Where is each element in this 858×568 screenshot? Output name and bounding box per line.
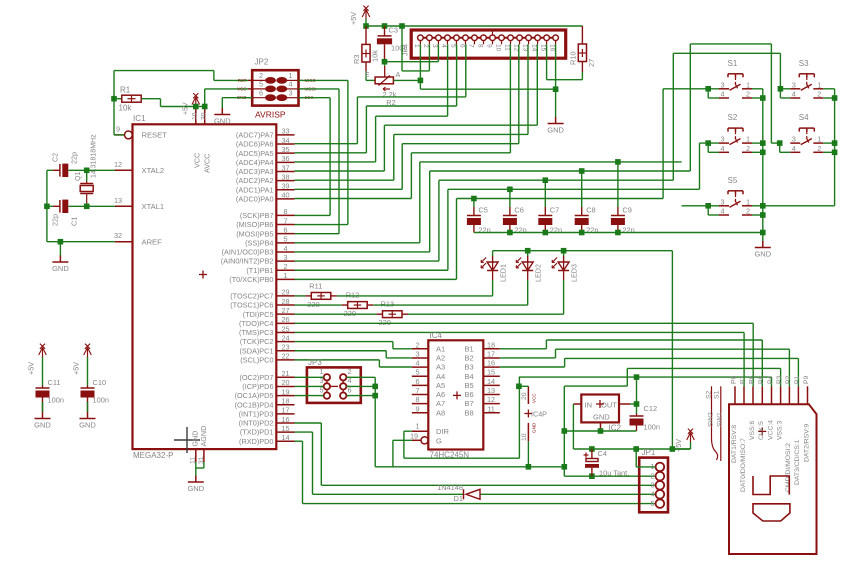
wire RESET to JP2 pin2: [113, 71, 115, 99]
node S5 right a: [760, 203, 766, 209]
svg-text:38: 38: [281, 172, 289, 181]
svg-text:2: 2: [746, 207, 750, 216]
svg-text:4: 4: [440, 44, 447, 48]
svg-text:A3: A3: [436, 363, 445, 372]
svg-text:9: 9: [485, 44, 492, 48]
node left rail XTAL1: [44, 204, 50, 210]
svg-text:C10: C10: [93, 378, 107, 387]
capacitor C6 22n: [509, 189, 511, 207]
svg-text:LED2: LED2: [534, 264, 543, 282]
svg-text:3: 3: [720, 80, 724, 89]
capacitor C8 22n: [581, 171, 583, 207]
svg-text:+5V: +5V: [183, 102, 190, 115]
connector SD card socket: [729, 404, 817, 554]
JP4 pin 11 pad: [508, 35, 514, 41]
svg-text:37: 37: [281, 163, 289, 172]
svg-text:14: 14: [530, 44, 537, 52]
IC4 pin 14 B5: [483, 384, 500, 386]
svg-text:DIR: DIR: [436, 427, 450, 436]
JP1 pin 4 pad: [656, 490, 665, 499]
svg-text:A: A: [396, 70, 401, 79]
+5V JP1: [690, 433, 692, 442]
svg-text:21: 21: [281, 369, 289, 378]
JP4 pin 3 pad: [436, 35, 442, 41]
svg-text:VCC:4: VCC:4: [767, 420, 774, 440]
svg-text:A4: A4: [436, 372, 445, 381]
capacitor C1 22p: [47, 205, 53, 207]
IC4 pin 16 B3: [483, 366, 500, 368]
pin 1 (T0/XCK)PB0: [276, 278, 294, 280]
svg-text:1: 1: [746, 135, 750, 144]
svg-text:IC2: IC2: [609, 424, 622, 433]
svg-text:14.31818MHz: 14.31818MHz: [91, 134, 98, 178]
node C8 top: [579, 168, 585, 174]
IC4 pin 15 B4: [483, 375, 500, 377]
wire PD1 to JP1 pin4 (via D1): [295, 431, 313, 433]
wire LCD p16 down: [555, 44, 557, 89]
pin 2 (T1)PB1: [276, 269, 294, 271]
svg-text:(ADC0)PA0: (ADC0)PA0: [236, 194, 274, 203]
svg-text:B1: B1: [465, 344, 474, 353]
JP3 pads row 1: [324, 374, 330, 380]
svg-text:CLK:5: CLK:5: [758, 421, 765, 440]
wire AREF gnd drop: [59, 242, 61, 256]
wire S2 right: [752, 142, 763, 144]
svg-text:DAT1/RSV:8: DAT1/RSV:8: [731, 425, 738, 463]
svg-text:100n: 100n: [644, 423, 660, 432]
ground JP2: [221, 108, 223, 115]
trimmer R2 2.2k: [365, 71, 367, 80]
wire VCC-AVCC link: [196, 106, 205, 108]
wire JP1 pin1 +5V: [635, 449, 637, 467]
IC4 pin 13 B6: [483, 394, 500, 396]
svg-text:9: 9: [116, 125, 120, 134]
wire PC2 to A1: [295, 341, 393, 343]
wire B2 to card P2 CMD: [500, 357, 556, 359]
svg-text:32: 32: [114, 231, 122, 240]
wire PB2 stub run: [295, 260, 439, 262]
svg-text:28: 28: [281, 297, 289, 306]
svg-text:(ADC7)PA7: (ADC7)PA7: [236, 131, 274, 140]
JP1 pad links: [659, 470, 661, 473]
wire button bus row 3: [439, 179, 673, 181]
resistor R11 220: [295, 295, 306, 297]
wire PD5 to JP3 pin5: [295, 395, 324, 397]
svg-text:14: 14: [281, 433, 289, 442]
JP4 pin 4 pad: [445, 35, 451, 41]
svg-text:(TMS)PC3: (TMS)PC3: [239, 328, 273, 337]
connector JP4 LCD 16-pin: [411, 30, 566, 58]
wire LED bus riser: [671, 251, 673, 449]
wire S3 right: [823, 88, 834, 90]
node C7 top: [543, 177, 549, 183]
pin 26 (TDO)PC4: [276, 322, 294, 324]
svg-text:S5: S5: [728, 176, 738, 185]
svg-text:IC4P: IC4P: [531, 410, 547, 419]
pin 21 (OC2)PD7: [276, 376, 294, 378]
svg-text:3: 3: [288, 89, 292, 98]
svg-text:10: 10: [521, 433, 528, 441]
svg-text:15: 15: [539, 44, 546, 52]
wire gnd to card P3: [564, 385, 627, 387]
IC4 pin 19 G (bubble): [412, 439, 421, 441]
wire LED2 cathode to R12: [373, 304, 528, 306]
svg-text:18: 18: [281, 397, 289, 406]
pin 12 XTAL2: [115, 169, 133, 171]
node rail R3: [363, 23, 369, 29]
svg-text:JP4: JP4: [403, 44, 410, 56]
resistor R13 220: [295, 313, 377, 315]
svg-text:27: 27: [281, 306, 289, 315]
wire DIR net: [404, 430, 412, 432]
svg-text:3: 3: [720, 135, 724, 144]
wire IC2 IN from +5V line: [573, 403, 581, 405]
svg-text:10: 10: [494, 44, 501, 52]
svg-text:2: 2: [817, 90, 821, 99]
svg-text:B4: B4: [465, 372, 474, 381]
node AREF gnd tap: [58, 239, 64, 245]
svg-text:4: 4: [720, 207, 724, 216]
JP4 pin 8 pad: [481, 35, 487, 41]
pin 19 (OC1A)PD5: [276, 395, 294, 397]
wire LCD p1 down: [419, 44, 421, 80]
svg-text:(ADC4)PA4: (ADC4)PA4: [236, 158, 274, 167]
svg-text:SW1: SW1: [717, 412, 724, 427]
svg-text:2: 2: [817, 144, 821, 153]
svg-text:19: 19: [281, 387, 289, 396]
wire PD0 to JP1 pin5: [295, 440, 303, 442]
svg-text:B2: B2: [465, 354, 474, 363]
node S2 left: [705, 140, 711, 146]
IC4 pin 17 B2: [483, 357, 500, 359]
SD logo: [753, 476, 789, 495]
node S4 right b: [832, 150, 838, 156]
LED LED3: [563, 251, 565, 256]
svg-text:(AIN0/INT2)PB2: (AIN0/INT2)PB2: [221, 257, 274, 266]
svg-text:22p: 22p: [51, 214, 60, 226]
wire PB1 riser: [447, 189, 449, 270]
wire S3 left link: [780, 88, 790, 90]
wire S4 pin4 loop: [779, 143, 781, 152]
svg-text:4: 4: [720, 144, 724, 153]
pin 35 (ADC5)PA5: [276, 152, 294, 154]
svg-text:27: 27: [587, 59, 596, 67]
svg-text:10k: 10k: [119, 104, 133, 113]
svg-text:R11: R11: [309, 281, 322, 290]
JP4 pin 13 pad: [526, 35, 532, 41]
node C5 top: [471, 196, 477, 202]
svg-text:(OC2)PD7: (OC2)PD7: [239, 373, 273, 382]
wire AREF row: [47, 241, 115, 243]
LED LED2: [527, 251, 529, 256]
svg-text:3: 3: [650, 481, 654, 490]
JP4 pin 16 pad: [553, 35, 559, 41]
svg-text:2: 2: [283, 262, 287, 271]
wire caps gnd bus: [474, 232, 763, 234]
wire PB2 riser: [438, 180, 440, 261]
svg-text:16: 16: [548, 44, 555, 52]
svg-text:36: 36: [281, 154, 289, 163]
origin mark IC2 +: [596, 403, 604, 405]
svg-text:8: 8: [283, 207, 287, 216]
svg-text:A6: A6: [436, 390, 445, 399]
svg-text:A8: A8: [436, 408, 445, 417]
origin cross IC1: [174, 439, 200, 441]
JP1 pin 5 pad: [656, 499, 665, 508]
wire LED anode bus: [493, 250, 673, 252]
svg-text:(ADC5)PA5: (ADC5)PA5: [236, 149, 274, 158]
svg-text:10k: 10k: [371, 50, 380, 62]
svg-text:23: 23: [281, 343, 289, 352]
wire JP2 pin1 MISO to PB6: [299, 79, 348, 81]
svg-text:3: 3: [283, 253, 287, 262]
svg-text:GND: GND: [79, 421, 96, 430]
ground C11: [42, 412, 44, 419]
svg-text:RST: RST: [238, 78, 247, 83]
IC IC1 MEGA32-P body: [133, 124, 277, 449]
pin 33 (ADC7)PA7: [276, 134, 294, 136]
node C3 bottom / wiper: [382, 59, 388, 65]
svg-text:2: 2: [650, 471, 654, 480]
SD pin P5 stub: [761, 386, 763, 404]
svg-text:4: 4: [650, 490, 654, 499]
pin 40 (ADC0)PA0: [276, 198, 294, 200]
svg-text:D1: D1: [454, 494, 463, 503]
IC IC2 regulator body: [581, 395, 619, 423]
svg-text:C6: C6: [514, 206, 523, 215]
svg-text:C9: C9: [622, 206, 631, 215]
+5V supply MCU: [195, 98, 197, 107]
wire PD2 to JP1 pin3: [295, 422, 322, 424]
svg-text:7: 7: [283, 216, 287, 225]
svg-text:30: 30: [200, 112, 207, 120]
pin 14 (RXD)PD0: [276, 440, 294, 442]
svg-text:GND: GND: [532, 422, 537, 433]
svg-text:2: 2: [746, 144, 750, 153]
node JP3 gnd b: [372, 393, 378, 399]
svg-text:IN: IN: [585, 401, 593, 410]
svg-text:24: 24: [281, 333, 289, 342]
svg-text:33: 33: [281, 127, 289, 136]
pin 11 GND / pin 31 AGND stubs: [195, 449, 197, 462]
svg-text:P5: P5: [758, 375, 765, 384]
node rail LCD p2 drop: [399, 23, 405, 29]
svg-text:12: 12: [487, 395, 495, 404]
node LED bus riser: [670, 446, 676, 452]
pin 5 (SS)PB4: [276, 242, 294, 244]
svg-text:(TOSC1)PC6: (TOSC1)PC6: [230, 301, 273, 310]
svg-text:17: 17: [281, 406, 289, 415]
wire S-right column join: [763, 205, 835, 207]
node S5 right b: [760, 212, 766, 218]
svg-text:VCC: VCC: [237, 86, 246, 91]
svg-text:OUT: OUT: [601, 401, 617, 410]
svg-text:G: G: [436, 437, 442, 446]
IC IC4 74HC245N body: [428, 340, 483, 449]
node C4 top: [589, 446, 595, 452]
svg-text:25: 25: [281, 324, 289, 333]
svg-text:XTAL2: XTAL2: [142, 166, 165, 175]
JP4 pin 7 pad: [472, 35, 478, 41]
wire PB0 riser: [456, 199, 458, 280]
svg-text:R13: R13: [381, 300, 395, 309]
svg-text:20: 20: [521, 392, 528, 400]
wire S1 pin4 loop: [707, 89, 709, 98]
svg-text:2: 2: [415, 340, 419, 349]
svg-text:C2: C2: [51, 153, 60, 162]
wire button bus row 1: [420, 161, 682, 163]
capacitor C9 22n: [617, 162, 619, 207]
svg-text:E: E: [365, 70, 370, 79]
svg-text:4: 4: [288, 80, 292, 89]
svg-text:+5V: +5V: [349, 12, 358, 25]
svg-text:P1: P1: [794, 375, 801, 384]
svg-text:1: 1: [413, 44, 420, 48]
wire gnd drop switches: [762, 233, 764, 242]
svg-text:R10: R10: [569, 51, 578, 65]
node C4 bottom: [589, 473, 595, 479]
svg-text:RESET: RESET: [142, 131, 168, 140]
IC4 pin 3 A2: [412, 357, 429, 359]
wire JP3 even pins gnd: [346, 376, 375, 378]
SD pin P8 stub: [734, 386, 736, 404]
svg-text:2: 2: [422, 44, 429, 48]
svg-text:B6: B6: [465, 390, 474, 399]
origin mark IC1 +: [199, 274, 207, 276]
svg-text:12: 12: [114, 160, 122, 169]
svg-text:C5: C5: [478, 206, 487, 215]
SD detect switch pins S2/S1: [711, 386, 713, 438]
svg-text:10u Tant.: 10u Tant.: [599, 469, 629, 478]
svg-text:P8: P8: [731, 375, 738, 384]
SD pin P3 stub: [780, 386, 782, 404]
origin tick JP4 pin9: [492, 31, 494, 35]
wire crystal left rail: [46, 170, 48, 241]
SD pin P1 stub: [797, 386, 799, 404]
wire PB6 stub run: [295, 224, 348, 226]
IC4 pin 5 A4: [412, 375, 429, 377]
node IC4P vcc: [516, 384, 522, 390]
pin 6 (MOSI)PB5: [276, 233, 294, 235]
node S3 right: [832, 95, 838, 101]
wire LED3 cathode to R13: [408, 313, 564, 315]
svg-text:(SDA)PC1: (SDA)PC1: [239, 346, 273, 355]
svg-text:P6: P6: [749, 375, 756, 384]
JP4 pin 15 pad: [544, 35, 550, 41]
wire PB3 stub run: [295, 251, 430, 253]
svg-text:9: 9: [415, 404, 419, 413]
svg-text:16: 16: [281, 415, 289, 424]
svg-text:3: 3: [792, 80, 796, 89]
+5V C10: [87, 348, 89, 357]
SD pin P4 stub: [771, 386, 773, 404]
svg-text:3: 3: [431, 44, 438, 48]
svg-text:(INT0)PD2: (INT0)PD2: [239, 419, 274, 428]
JP2 pad row 5/4: [248, 88, 265, 90]
switch S2: [728, 127, 743, 129]
svg-text:8: 8: [476, 44, 483, 48]
JP3 pads row 3: [324, 392, 330, 398]
svg-text:(ADC3)PA3: (ADC3)PA3: [236, 167, 274, 176]
wire PB3 riser: [429, 171, 431, 252]
svg-text:4: 4: [415, 359, 419, 368]
wire +5V input line: [573, 448, 690, 450]
svg-text:7: 7: [467, 44, 474, 48]
JP4 pad chain: [418, 37, 559, 39]
wire LCD p11 D4 to PA0: [509, 44, 511, 153]
svg-text:JP1: JP1: [642, 448, 656, 457]
connector JP1: [639, 458, 668, 513]
svg-text:7: 7: [415, 386, 419, 395]
svg-text:P2: P2: [785, 375, 792, 384]
node JP1 pin1 drop: [633, 446, 639, 452]
svg-text:1: 1: [746, 80, 750, 89]
svg-text:B7: B7: [465, 399, 474, 408]
wire PD7 to JP3 pin1: [295, 376, 324, 378]
svg-text:29: 29: [281, 288, 289, 297]
resistor R10 27: [581, 26, 583, 44]
svg-text:19: 19: [410, 432, 418, 441]
pin 29 (TOSC2)PC7: [276, 295, 294, 297]
svg-text:DAT0/DO/MISO:7: DAT0/DO/MISO:7: [740, 438, 747, 492]
pin 17 (INT1)PD3: [276, 413, 294, 415]
svg-text:R3: R3: [352, 55, 361, 64]
pin 36 (ADC4)PA4: [276, 161, 294, 163]
svg-text:LED1: LED1: [499, 264, 508, 282]
svg-text:A7: A7: [436, 399, 445, 408]
pin 3 (AIN0/INT2)PB2: [276, 260, 294, 262]
connector JP3: [307, 367, 361, 403]
svg-text:(SCK)PB7: (SCK)PB7: [240, 211, 274, 220]
node RESET at R1: [111, 96, 117, 102]
svg-text:DAT2/RSV:9: DAT2/RSV:9: [803, 424, 810, 462]
JP1 pin 3 pad: [656, 481, 665, 490]
IC4 pin 2 A1: [412, 348, 429, 350]
svg-text:DAT3/CD/CS:1: DAT3/CD/CS:1: [794, 439, 801, 485]
svg-text:(T0/XCK)PB0: (T0/XCK)PB0: [229, 275, 273, 284]
svg-text:100n: 100n: [93, 396, 109, 405]
svg-text:17: 17: [487, 349, 495, 358]
pin 27 (TDI)PC5: [276, 313, 294, 315]
pin 4 (AIN1/OC0)PB3: [276, 251, 294, 253]
svg-text:6: 6: [259, 89, 263, 98]
svg-text:(SCL)PC0: (SCL)PC0: [240, 355, 273, 364]
switch S4: [799, 127, 814, 129]
node S1 right: [760, 95, 766, 101]
node XTAL2 net: [84, 168, 90, 174]
IC4 pin 6 A5: [412, 384, 429, 386]
wire G to gnd bus: [393, 439, 412, 441]
svg-text:39: 39: [281, 182, 289, 191]
svg-text:R1: R1: [120, 86, 131, 95]
svg-text:1: 1: [746, 197, 750, 206]
node S2 right b: [760, 150, 766, 156]
svg-text:C11: C11: [48, 378, 61, 387]
svg-text:35: 35: [281, 145, 289, 154]
svg-text:VSS:3: VSS:3: [776, 421, 783, 440]
pin 18 (OC1B)PD4: [276, 404, 294, 406]
svg-text:(OC1B)PD4: (OC1B)PD4: [235, 400, 274, 409]
svg-text:AGND: AGND: [199, 426, 208, 447]
pin 24 (TCK)PC2: [276, 341, 294, 343]
wire button bus row 4: [448, 188, 700, 190]
node JP3 gnd a: [372, 384, 378, 390]
node LCD p16 gnd: [553, 86, 559, 92]
wire PA1 row: [295, 188, 403, 190]
wire PC1 to A2: [295, 350, 387, 352]
svg-text:6: 6: [283, 225, 287, 234]
svg-text:+5V: +5V: [72, 362, 81, 375]
